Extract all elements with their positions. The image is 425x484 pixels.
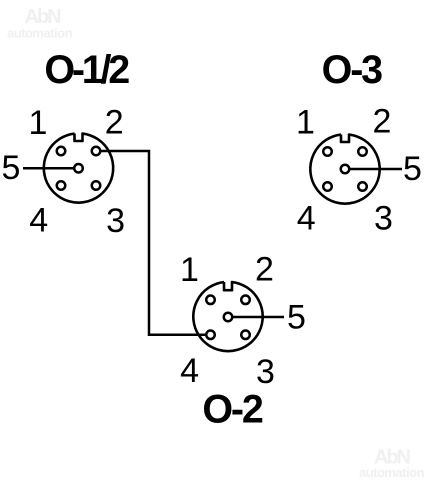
connector O-2 body with keyway notch [193, 282, 262, 351]
wire pin 5 of O-1/2 to label 5 [23, 167, 74, 170]
connector O-1/2 pin 2 [92, 147, 101, 156]
connector O-2 pin 5 (center) [224, 313, 233, 322]
connector O-2 pin 2 [241, 296, 250, 305]
svg-text:5: 5 [2, 149, 21, 187]
connector O-1/2 pin 4 [57, 181, 66, 190]
svg-text:5: 5 [287, 299, 306, 337]
connector O-3 pin 2 [358, 147, 367, 156]
svg-text:2: 2 [105, 104, 124, 142]
connector O-3 body with keyway notch [310, 135, 379, 204]
svg-text:automation: automation [7, 26, 73, 41]
connector O-1/2 pin 5 (center) [74, 164, 83, 173]
wire pin 5 of O-2 to label 5 [233, 316, 284, 319]
svg-text:3: 3 [374, 200, 393, 238]
connector O-2 pin 1 [206, 296, 215, 305]
svg-text:O-3: O-3 [322, 48, 382, 92]
svg-text:4: 4 [297, 200, 316, 238]
wire pin 5 of O-3 to label 5 [350, 168, 402, 171]
connector O-1/2 pin 3 [92, 181, 101, 190]
svg-text:2: 2 [255, 251, 274, 289]
svg-text:2: 2 [373, 103, 392, 141]
svg-text:1: 1 [180, 251, 199, 289]
connector O-2 pin 4 [206, 331, 215, 340]
connector O-3 pin 1 [323, 147, 332, 156]
connector O-1/2 body with keyway notch [44, 134, 113, 203]
svg-text:5: 5 [403, 150, 422, 188]
svg-text:1: 1 [28, 104, 47, 142]
wire pin 2 of O-1/2 to pin 4 of O-2 [101, 151, 207, 335]
connector O-3 pin 5 (center) [341, 165, 350, 174]
connector O-2 pin 3 [241, 331, 250, 340]
svg-text:3: 3 [106, 202, 125, 240]
connector O-1/2 pin 1 [57, 147, 66, 156]
svg-text:4: 4 [180, 352, 199, 390]
svg-text:1: 1 [296, 104, 315, 142]
svg-text:4: 4 [29, 202, 48, 240]
connector O-3 pin 4 [323, 182, 332, 191]
connector O-3 pin 3 [358, 182, 367, 191]
svg-text:O-2: O-2 [202, 388, 262, 432]
svg-text:O-1/2: O-1/2 [44, 48, 129, 92]
svg-text:automation: automation [359, 465, 425, 480]
svg-text:3: 3 [256, 353, 275, 391]
